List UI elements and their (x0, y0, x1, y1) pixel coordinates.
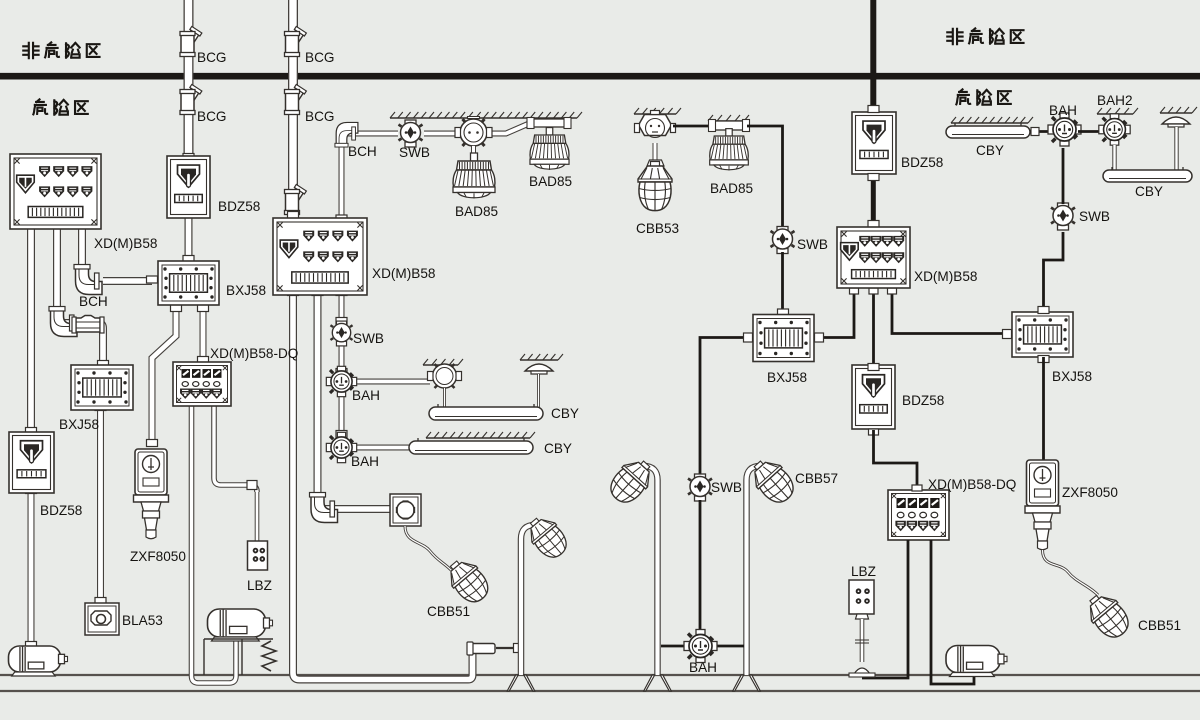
svg-text:BDZ58: BDZ58 (218, 199, 260, 214)
svg-text:SWB: SWB (711, 480, 742, 495)
svg-text:BXJ58: BXJ58 (767, 370, 807, 385)
svg-text:BCG: BCG (197, 50, 226, 65)
svg-text:CBY: CBY (976, 143, 1004, 158)
svg-text:LBZ: LBZ (247, 578, 272, 593)
svg-text:BDZ58: BDZ58 (901, 155, 943, 170)
svg-text:SWB: SWB (399, 145, 430, 160)
svg-text:CBB57: CBB57 (795, 471, 838, 486)
svg-text:BAH: BAH (352, 388, 380, 403)
svg-text:BXJ58: BXJ58 (59, 417, 99, 432)
svg-text:CBY: CBY (544, 441, 572, 456)
svg-text:LBZ: LBZ (851, 564, 876, 579)
svg-text:BAH: BAH (351, 454, 379, 469)
svg-text:BAH2: BAH2 (1097, 93, 1133, 108)
svg-text:CBY: CBY (1135, 184, 1163, 199)
svg-text:CBB53: CBB53 (636, 221, 679, 236)
svg-text:BXJ58: BXJ58 (226, 283, 266, 298)
svg-text:ZXF8050: ZXF8050 (130, 549, 186, 564)
svg-text:BCG: BCG (197, 109, 226, 124)
svg-text:XD(M)B58: XD(M)B58 (94, 236, 157, 251)
svg-text:CBB51: CBB51 (427, 604, 470, 619)
svg-text:XD(M)B58: XD(M)B58 (372, 266, 435, 281)
svg-text:SWB: SWB (797, 237, 828, 252)
svg-text:SWB: SWB (353, 331, 384, 346)
svg-text:BXJ58: BXJ58 (1052, 369, 1092, 384)
svg-text:CBB51: CBB51 (1138, 618, 1181, 633)
svg-text:BAH: BAH (689, 660, 717, 675)
svg-text:BCH: BCH (79, 294, 108, 309)
svg-text:BCG: BCG (305, 50, 334, 65)
svg-text:XD(M)B58-DQ: XD(M)B58-DQ (928, 477, 1016, 492)
svg-text:BLA53: BLA53 (122, 613, 163, 628)
svg-text:BCG: BCG (305, 109, 334, 124)
svg-text:BAD85: BAD85 (529, 174, 572, 189)
svg-text:SWB: SWB (1079, 209, 1110, 224)
svg-text:BDZ58: BDZ58 (902, 393, 944, 408)
svg-text:CBY: CBY (551, 406, 579, 421)
svg-text:XD(M)B58-DQ: XD(M)B58-DQ (210, 346, 298, 361)
svg-text:BDZ58: BDZ58 (40, 503, 82, 518)
svg-text:BCH: BCH (348, 144, 377, 159)
svg-text:BAH: BAH (1049, 103, 1077, 118)
svg-text:BAD85: BAD85 (710, 181, 753, 196)
svg-text:ZXF8050: ZXF8050 (1062, 485, 1118, 500)
svg-text:XD(M)B58: XD(M)B58 (914, 269, 977, 284)
svg-text:BAD85: BAD85 (455, 204, 498, 219)
